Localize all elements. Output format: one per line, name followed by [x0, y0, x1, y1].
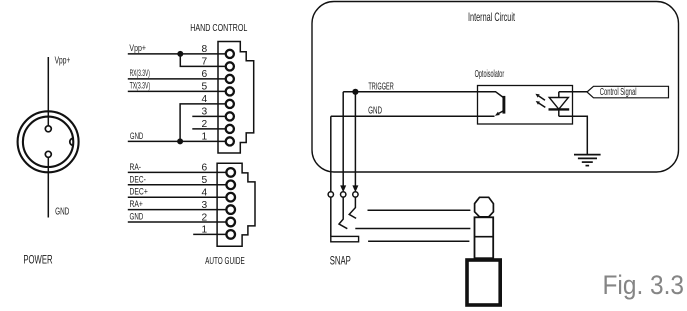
wire TRIGGER — [343, 91, 496, 93]
svg-text:2: 2 — [202, 119, 208, 130]
svg-text:3: 3 — [202, 107, 208, 118]
LED anode lead — [558, 92, 560, 98]
svg-text:HAND CONTROL: HAND CONTROL — [190, 23, 247, 34]
SNAP sleeve breakout circle — [328, 192, 333, 197]
wire SNAP ring vertical (TRIGGER) — [354, 92, 356, 186]
wire junction down to pin 7 level — [180, 54, 225, 67]
svg-text:Vpp+: Vpp+ — [129, 42, 146, 53]
ground symbol — [574, 154, 601, 156]
SNAP tip breakout circle — [341, 192, 346, 197]
wire plug tip line — [368, 209, 471, 211]
svg-text:Control Signal: Control Signal — [600, 87, 637, 98]
hand control pin 1 contact — [226, 137, 234, 145]
hand control pin 3 contact — [226, 112, 234, 120]
svg-text:GND: GND — [55, 205, 69, 217]
wire GND to auto guide pin 2 — [128, 221, 227, 223]
svg-text:Internal Circuit: Internal Circuit — [468, 10, 515, 24]
control signal banner — [587, 86, 669, 98]
wire GND from power pin — [47, 157, 49, 217]
power pin GND — [45, 151, 51, 157]
wire RX(3.3V) to hand control pin 6 — [128, 78, 226, 80]
auto guide pin 2 contact — [226, 218, 235, 227]
wire pin 4 to GND vertical — [180, 104, 226, 141]
wire RA- to auto guide pin 6 — [128, 171, 227, 173]
wire GND internal — [331, 115, 495, 117]
svg-text:5: 5 — [202, 82, 208, 93]
power connector J1 inner circle — [23, 117, 73, 167]
optoisolator phototransistor bar — [502, 96, 505, 114]
wire LED cathode to ground — [559, 116, 588, 154]
svg-text:Vpp+: Vpp+ — [55, 54, 71, 66]
plug body — [467, 260, 500, 305]
svg-text:RX(3.3V): RX(3.3V) — [130, 67, 150, 78]
optoisolator light arrow 1 — [539, 96, 545, 100]
svg-text:2: 2 — [202, 212, 208, 223]
wire Vpp+ to hand control pin 8 — [128, 53, 226, 55]
plug ring shaft — [475, 217, 494, 258]
LED cathode lead — [558, 109, 560, 116]
wire RA+ to auto guide pin 3 — [128, 209, 227, 211]
SNAP tip contact spring — [339, 197, 347, 229]
svg-text:6: 6 — [202, 163, 208, 174]
hand control connector body — [218, 42, 254, 154]
plug ring divider — [475, 236, 494, 238]
hand control pin 2 contact — [226, 125, 234, 133]
svg-text:GND: GND — [368, 106, 382, 117]
auto guide pin 3 contact — [226, 205, 235, 214]
optoisolator light arrow 2 head — [536, 101, 540, 105]
power pin Vpp+ — [45, 126, 51, 132]
LED triangle — [549, 98, 568, 110]
svg-text:GND: GND — [130, 130, 144, 141]
hand control pin 6 contact — [226, 75, 234, 83]
wire DEC- to auto guide pin 5 — [128, 184, 227, 186]
svg-text:Fig. 3.3: Fig. 3.3 — [603, 270, 685, 300]
optoisolator light arrow 2 — [539, 103, 545, 107]
auto guide pin 5 contact — [226, 181, 235, 190]
svg-text:TRIGGER: TRIGGER — [368, 82, 393, 93]
svg-text:6: 6 — [202, 69, 208, 80]
svg-text:TX(3.3V): TX(3.3V) — [130, 80, 151, 91]
wire plug sleeve line — [368, 240, 469, 242]
optoisolator phototransistor emitter lead — [499, 111, 503, 114]
auto guide pin 1 contact — [226, 230, 235, 239]
auto guide pin 6 contact — [226, 168, 235, 177]
wire SNAP sleeve vertical (GND) — [330, 116, 332, 191]
auto guide pin 4 contact — [226, 193, 235, 202]
power connector key notch — [70, 138, 74, 145]
junction GND pins 1-4 — [177, 138, 183, 144]
svg-text:1: 1 — [202, 225, 208, 236]
wire sleeve circle to bracket — [330, 197, 332, 236]
hand control pin 5 contact — [226, 87, 234, 95]
svg-text:5: 5 — [202, 175, 208, 186]
SNAP tip arrowhead — [340, 185, 346, 192]
power connector J1 outer circle — [18, 111, 79, 172]
SNAP ring breakout circle — [353, 192, 358, 197]
svg-text:1: 1 — [202, 132, 208, 143]
svg-text:3: 3 — [202, 200, 208, 211]
wire stub hand control pin 2 — [192, 128, 225, 130]
svg-text:RA-: RA- — [130, 161, 142, 172]
LED cathode bar — [549, 108, 570, 110]
SNAP sleeve contact bracket — [331, 236, 359, 241]
hand control pin 8 contact — [226, 50, 234, 58]
svg-text:GND: GND — [130, 210, 144, 221]
svg-text:SNAP: SNAP — [330, 256, 351, 268]
wire GND to hand control pin 1 — [128, 140, 226, 142]
hand control pin 7 contact — [226, 62, 234, 70]
wire plug ring line — [355, 228, 470, 230]
wire stub auto guide pin 1 — [193, 233, 226, 235]
hand control pin 4 contact — [226, 100, 234, 108]
svg-text:Optoisolator: Optoisolator — [475, 69, 505, 80]
auto guide connector body — [217, 163, 255, 246]
svg-text:POWER: POWER — [23, 255, 52, 267]
wire Vpp+ to power pin — [47, 57, 49, 126]
svg-text:4: 4 — [202, 94, 208, 105]
SNAP ring arrowhead — [352, 185, 358, 192]
svg-text:DEC-: DEC- — [130, 173, 146, 184]
svg-text:DEC+: DEC+ — [130, 186, 149, 197]
optoisolator U1 box — [478, 86, 573, 125]
wire TX(3.3V) to hand control pin 5 — [128, 90, 226, 92]
wire LED anode to control signal — [559, 91, 587, 93]
junction TRIGGER node — [352, 89, 358, 95]
plug tip octagon — [475, 197, 494, 217]
svg-text:RA+: RA+ — [130, 198, 144, 209]
internal circuit enclosure box — [312, 2, 679, 173]
optoisolator light arrow 1 head — [535, 94, 539, 98]
junction Vpp+ pins 8-7 — [177, 51, 183, 57]
SNAP ring contact spring — [349, 197, 356, 218]
wire SNAP tip vertical (TRIGGER) — [342, 92, 344, 186]
optoisolator emitter arrowhead — [495, 112, 500, 116]
svg-text:AUTO GUIDE: AUTO GUIDE — [205, 256, 245, 267]
svg-text:8: 8 — [202, 44, 208, 55]
optoisolator phototransistor collector lead — [496, 92, 504, 98]
wire DEC+ to auto guide pin 4 — [128, 196, 227, 198]
svg-text:4: 4 — [202, 188, 208, 199]
wire stub hand control pin 3 — [192, 115, 225, 117]
svg-text:7: 7 — [202, 57, 208, 68]
